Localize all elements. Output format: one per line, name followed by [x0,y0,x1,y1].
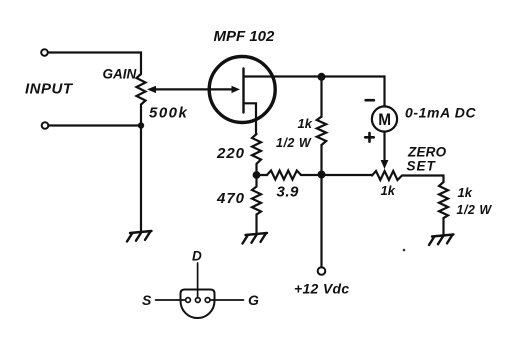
svg-text:MPF 102: MPF 102 [214,28,276,45]
svg-text:3.9: 3.9 [277,184,300,201]
svg-text:500k: 500k [149,105,188,122]
svg-text:S: S [142,292,152,308]
svg-text:1/2 W: 1/2 W [276,136,312,150]
svg-text:+12 Vdc: +12 Vdc [294,281,349,297]
svg-text:1k: 1k [458,185,473,200]
svg-text:G: G [248,292,259,308]
svg-text:GAIN: GAIN [103,67,137,82]
svg-text:M: M [378,110,391,129]
svg-text:D: D [192,249,202,264]
svg-text:1k: 1k [381,183,396,198]
svg-text:INPUT: INPUT [25,81,74,98]
svg-text:1/2 W: 1/2 W [457,203,493,217]
svg-text:ZERO: ZERO [407,145,447,160]
svg-text:SET: SET [407,159,437,174]
svg-text:1k: 1k [298,116,313,131]
svg-text:0-1mA DC: 0-1mA DC [405,105,476,121]
svg-text:470: 470 [216,190,245,207]
svg-text:220: 220 [216,145,245,162]
